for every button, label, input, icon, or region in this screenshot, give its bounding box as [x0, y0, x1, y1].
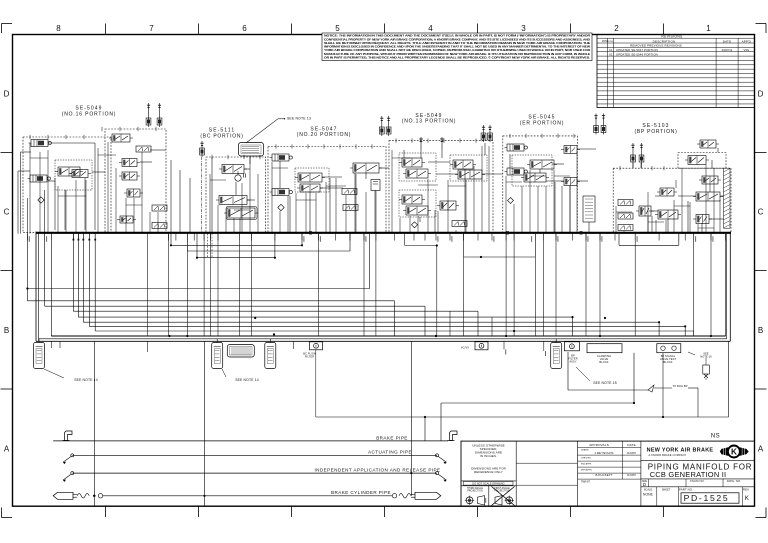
valve C3	[295, 173, 325, 182]
svg-text:BLOCK: BLOCK	[663, 360, 672, 364]
svg-text:A: A	[758, 445, 764, 454]
actuating cock right	[436, 454, 447, 464]
valve E6	[561, 178, 580, 186]
bp signal block drop	[662, 353, 664, 418]
svg-text:REMOVED PREVIOUS REVISIONS: REMOVED PREVIOUS REVISIONS	[630, 44, 682, 48]
independent cock right	[436, 472, 447, 482]
aux vent box T3	[227, 345, 254, 358]
10 psi vent valve	[648, 384, 698, 417]
valve D3	[399, 158, 425, 167]
stub T5	[148, 341, 294, 352]
svg-text:CHECKED: CHECKED	[581, 457, 591, 459]
svg-text:03/27/12: 03/27/12	[722, 48, 733, 52]
valve A3	[55, 167, 83, 176]
block top port ticks	[30, 127, 664, 171]
pipe junction dots	[168, 244, 686, 337]
diamond C5	[278, 204, 284, 210]
riser symbols D right	[481, 125, 492, 142]
valve E4	[521, 173, 549, 182]
check valve E1	[505, 144, 528, 151]
valve F6	[636, 206, 654, 216]
svg-text:INDEPENDENT APPLICATION AND RE: INDEPENDENT APPLICATION AND RELEASE PIPE	[314, 467, 440, 472]
svg-text:CCB GENERATION II: CCB GENERATION II	[650, 470, 727, 479]
see note 14 left	[44, 369, 98, 382]
svg-text:TO BOG BP: TO BOG BP	[672, 384, 687, 388]
manifold top bus (thick)	[36, 232, 731, 234]
stub T1a	[51, 341, 60, 348]
diamond E8	[508, 198, 514, 204]
block horizontal jogs	[30, 155, 714, 228]
svg-text:SHEET: SHEET	[662, 488, 671, 491]
svg-text:SEE NOTE 13: SEE NOTE 13	[287, 117, 311, 121]
svg-text:NS: NS	[711, 433, 720, 439]
valve C4	[297, 184, 323, 192]
valve F8	[693, 192, 723, 201]
svg-text:SCALE: SCALE	[644, 488, 653, 491]
valve F9	[693, 215, 712, 224]
cylinder E7	[583, 196, 595, 222]
riser symbols F	[631, 143, 644, 164]
svg-text:BRAKE PIPE: BRAKE PIPE	[376, 435, 408, 440]
riser dots	[93, 402, 635, 497]
valve A9	[119, 172, 140, 180]
see note 13 callout	[246, 117, 311, 143]
valve E5	[561, 146, 580, 154]
svg-text:7: 7	[149, 24, 154, 33]
svg-text:C: C	[4, 208, 10, 217]
valve F1	[685, 156, 709, 165]
do not scale cell	[461, 482, 516, 507]
manifold bottom wall	[36, 339, 730, 342]
svg-text:UPDATED SE-5049 PORTION: UPDATED SE-5049 PORTION	[616, 52, 658, 56]
valve B3	[216, 196, 250, 205]
svg-text:SEE NOTE 15: SEE NOTE 15	[593, 381, 617, 385]
zone numbers top	[56, 24, 711, 33]
brake cylinder pipe line	[103, 490, 392, 496]
independent pipe line	[72, 467, 440, 473]
svg-text:K: K	[731, 448, 737, 457]
size row	[641, 479, 755, 487]
cylinder C7	[371, 180, 380, 191]
revisions table	[597, 34, 755, 107]
svg-text:OR IN PART IS PERMITTED, THIS: OR IN PART IS PERMITTED, THIS NOTICE AND…	[324, 56, 590, 60]
valve A10	[124, 189, 143, 197]
block SE-5103 BP outline	[613, 153, 731, 233]
zone ticks top	[106, 24, 664, 35]
zz F3	[618, 200, 633, 206]
svg-text:IN INCHES.: IN INCHES.	[480, 454, 497, 458]
svg-text:01/03/97: 01/03/97	[627, 453, 637, 455]
valve E3	[527, 160, 557, 169]
svg-text:BRAKE CYLINDER PIPE: BRAKE CYLINDER PIPE	[331, 490, 391, 495]
brake pipe angle cock left	[63, 431, 73, 441]
port stubs below bus	[27, 231, 725, 337]
check valve C1	[270, 154, 293, 161]
glad hand right	[392, 492, 441, 499]
stubs T13	[504, 341, 546, 356]
svg-text:B.PUCKETT: B.PUCKETT	[595, 473, 612, 477]
svg-text:DO NOT SCALE DRAWING: DO NOT SCALE DRAWING	[472, 482, 504, 485]
valve A11	[117, 216, 136, 223]
valve D4	[403, 169, 431, 178]
svg-text:THIRD ANGLE: THIRD ANGLE	[467, 487, 483, 490]
check valve A2	[28, 175, 51, 182]
zz C8	[342, 189, 357, 195]
valve F11	[657, 188, 677, 196]
tick pair D1	[419, 137, 423, 150]
zz D10	[452, 221, 467, 227]
brake pipe line	[53, 435, 448, 441]
svg-text:DESCRIPTION: DESCRIPTION	[653, 39, 676, 43]
svg-text:(ER PORTION): (ER PORTION)	[520, 121, 565, 127]
svg-text:REFERENCE ONLY: REFERENCE ONLY	[474, 470, 503, 474]
internal pipe runs	[18, 152, 726, 336]
manifold left wall	[36, 232, 39, 342]
svg-text:REV: REV	[743, 488, 749, 492]
valve A6	[109, 134, 133, 142]
manifold right wall	[727, 232, 731, 342]
lower run y417	[316, 341, 729, 441]
riser x94	[93, 341, 95, 505]
svg-text:FILTER: FILTER	[305, 355, 314, 359]
check valve A1	[29, 140, 52, 147]
svg-text:K2: K2	[609, 52, 613, 56]
svg-text:1: 1	[706, 24, 711, 33]
svg-text:6: 6	[242, 24, 247, 33]
svg-text:K1: K1	[609, 48, 613, 52]
svg-text:4: 4	[428, 24, 433, 33]
knorr logo	[720, 446, 749, 458]
svg-text:BLOCK: BLOCK	[599, 360, 608, 364]
svg-text:B: B	[758, 326, 763, 335]
riser x411	[410, 341, 412, 496]
label SE-5045 ER	[520, 115, 565, 127]
svg-text:VSG: VSG	[743, 48, 749, 52]
svg-text:A KNORR BRAKE COMPANY: A KNORR BRAKE COMPANY	[649, 453, 687, 457]
svg-text:(NO.13 PORTION): (NO.13 PORTION)	[402, 119, 457, 125]
independent cock left	[63, 472, 74, 482]
inner box A	[55, 160, 92, 190]
svg-text:01/03/97: 01/03/97	[627, 475, 637, 477]
zz F5	[618, 225, 633, 231]
gauge B2	[235, 171, 246, 181]
tick pair D2	[440, 137, 444, 150]
svg-text:2: 2	[614, 24, 619, 33]
brake pipe angle cock right	[448, 431, 458, 441]
wire F12	[648, 180, 710, 234]
svg-text:(BP PORTION): (BP PORTION)	[635, 129, 678, 135]
label SE-5049 NO.13	[402, 113, 457, 125]
valve F10	[699, 176, 721, 184]
svg-text:PROJECTION: PROJECTION	[467, 491, 483, 493]
svg-text:APPROVALS: APPROVALS	[589, 443, 609, 447]
svg-text:VC/VX: VC/VX	[461, 346, 469, 350]
block SE-5049 NO.13 outline	[389, 141, 493, 233]
svg-text:FIRST ANGLE: FIRST ANGLE	[494, 487, 510, 490]
svg-text:PD-1525: PD-1525	[684, 493, 730, 503]
riser x204	[204, 341, 206, 505]
valve D6	[455, 170, 485, 179]
valve A8	[119, 159, 140, 167]
bp filter T8	[551, 339, 562, 369]
riser symbols E-F	[594, 114, 606, 135]
svg-text:NONE: NONE	[643, 492, 654, 496]
title text	[641, 461, 755, 479]
svg-text:J.REYNOLDS: J.REYNOLDS	[594, 451, 613, 455]
clamping block T10	[587, 344, 622, 365]
hatch strip F	[724, 168, 731, 228]
inner box E	[512, 155, 552, 186]
svg-text:LTR: LTR	[609, 41, 613, 43]
svg-text:3: 3	[521, 24, 526, 33]
bp signal block T11	[657, 344, 681, 365]
inner box C	[295, 168, 329, 192]
zz A12	[152, 205, 167, 211]
svg-text:DRAWN: DRAWN	[581, 449, 589, 452]
label SE-5103 BP	[635, 123, 678, 135]
zone letters right	[758, 90, 764, 454]
internal cross headers	[171, 234, 679, 258]
svg-text:DATE: DATE	[723, 39, 732, 43]
lower run to note 15	[568, 352, 648, 390]
svg-text:D: D	[4, 90, 10, 99]
svg-text:C: C	[758, 208, 764, 217]
svg-text:MGR APPR.: MGR APPR.	[581, 468, 593, 471]
block SE-5047 NO.20 outline	[268, 147, 386, 233]
valve D5	[450, 160, 476, 169]
svg-text:DATE: DATE	[627, 443, 636, 447]
svg-text:APP'D: APP'D	[742, 39, 752, 43]
fitting T9	[564, 342, 579, 351]
valve F7	[655, 210, 681, 219]
check valve C2	[270, 189, 293, 196]
see note 16	[688, 352, 712, 359]
svg-text:ASSY: ASSY	[569, 360, 576, 364]
valve F2	[697, 140, 719, 148]
svg-text:D: D	[758, 90, 764, 99]
riser symbols A	[146, 103, 162, 127]
zz A7	[136, 146, 151, 152]
svg-text:D: D	[643, 482, 646, 487]
title block frame	[461, 441, 755, 506]
zone ticks sides	[1, 153, 767, 390]
inner box D1	[399, 153, 436, 181]
inner box D2	[450, 155, 487, 181]
riser symbol B	[200, 141, 205, 157]
block band wires	[27, 143, 723, 234]
valve B4	[224, 207, 258, 220]
diamond D11	[412, 222, 418, 228]
block internal drop wires	[30, 142, 720, 234]
valve D7	[399, 195, 425, 204]
svg-text:8: 8	[56, 24, 61, 33]
riser symbols D left	[379, 116, 391, 136]
svg-text:FSCM NO.: FSCM NO.	[690, 479, 705, 483]
svg-text:ENG APPR.: ENG APPR.	[581, 462, 592, 465]
see note 14 mid	[222, 369, 259, 382]
flow indicator box (note 13)	[239, 143, 264, 157]
block SE-5045 ER outline	[503, 136, 578, 233]
valve C6	[350, 163, 382, 173]
company name	[647, 448, 714, 458]
first angle projection symbol (crossed)	[492, 487, 515, 506]
zz F4	[618, 213, 633, 219]
lower run y403	[441, 353, 634, 441]
label SE-5111 BC	[200, 128, 243, 140]
approvals header	[578, 441, 641, 479]
svg-text:(NO.20 PORTION): (NO.20 PORTION)	[297, 132, 352, 138]
svg-text:SEE NOTE 14: SEE NOTE 14	[235, 378, 259, 382]
bc outer boundary	[200, 157, 202, 234]
label SE-5047 NO.20	[297, 126, 352, 138]
vent valve T12	[703, 358, 710, 380]
svg-text:A: A	[4, 445, 10, 454]
valve D8	[403, 206, 431, 215]
inner box D3	[399, 190, 436, 217]
check valve E2	[505, 168, 528, 175]
svg-text:(BC PORTION): (BC PORTION)	[200, 134, 243, 140]
svg-text:(NO.16 PORTION): (NO.16 PORTION)	[62, 111, 117, 117]
valve D9	[437, 201, 459, 210]
block SE-5111 BC outline	[206, 157, 266, 233]
zz C9	[343, 205, 358, 211]
actuating pipe line	[72, 450, 437, 456]
block SE-5049 NO.16 outline	[23, 129, 166, 233]
zone ticks bottom	[106, 506, 664, 517]
scale sheet part rev row	[643, 487, 750, 506]
see note 15 callout	[576, 367, 617, 385]
zz A13	[152, 223, 167, 229]
label SE-5049 NO.16	[62, 106, 117, 118]
zone letters left	[4, 90, 10, 454]
approvals entries	[581, 449, 637, 484]
svg-text:ACTUATING PIPE: ACTUATING PIPE	[368, 450, 412, 455]
bc flow filter T6	[303, 342, 322, 417]
NS note	[711, 433, 720, 439]
diamond A5	[38, 197, 44, 203]
valve B1	[219, 165, 247, 174]
proprietary notice block	[322, 33, 592, 61]
svg-text:REVISIONS: REVISIONS	[661, 34, 683, 38]
svg-text:TBM WT.: TBM WT.	[581, 481, 591, 483]
vc valve T7	[461, 342, 488, 350]
bp filter label	[568, 354, 577, 364]
svg-text:5: 5	[335, 24, 340, 33]
tolerance notes cell	[461, 443, 516, 481]
actuating cock left	[63, 454, 74, 464]
test fitting T4	[265, 339, 276, 369]
svg-text:DWG. NO.: DWG. NO.	[727, 479, 741, 483]
valve A4	[69, 170, 91, 178]
svg-text:NEW YORK AIR BRAKE: NEW YORK AIR BRAKE	[647, 448, 714, 454]
glad hand left	[53, 492, 103, 499]
svg-text:B: B	[4, 326, 9, 335]
svg-text:PART NO.: PART NO.	[679, 488, 693, 492]
third angle projection symbol	[465, 496, 486, 505]
test fitting T2	[212, 339, 223, 369]
test fitting T1	[34, 339, 45, 369]
